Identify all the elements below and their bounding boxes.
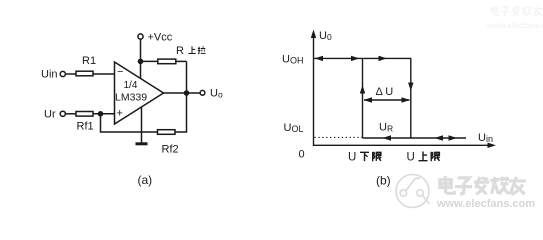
svg-text:LM339: LM339	[115, 92, 147, 104]
svg-text:1/4: 1/4	[124, 80, 138, 91]
svg-text:Rf1: Rf1	[77, 121, 94, 133]
svg-text:−: −	[117, 66, 123, 78]
arrowhead UOH line mid-right1	[351, 56, 360, 61]
svg-text:0: 0	[299, 149, 305, 161]
resistor Rf2	[158, 130, 176, 135]
hysteresis right vertical	[410, 58, 412, 138]
label CJK xian (limit, lower)	[373, 152, 382, 161]
wire op-amp V- pin to ground	[141, 107, 143, 143]
line UOH level	[314, 57, 412, 59]
arrowhead UOL branch left	[383, 135, 392, 140]
svg-text:Rf2: Rf2	[162, 144, 179, 156]
wire	[141, 60, 158, 62]
svg-text:UR: UR	[379, 122, 393, 134]
svg-text:+: +	[117, 108, 123, 120]
terminal Ur	[60, 111, 65, 116]
wire	[176, 60, 187, 62]
wire	[66, 113, 77, 115]
svg-text:Uin: Uin	[478, 132, 493, 144]
svg-text:www.elecfans.com: www.elecfans.com	[436, 198, 535, 210]
svg-text:(a): (a)	[138, 173, 153, 187]
node junction B	[138, 59, 144, 65]
axis Uo vertical	[313, 33, 315, 146]
ground	[136, 142, 148, 145]
terminal Uo	[200, 90, 205, 95]
line UOL branch	[363, 137, 467, 139]
svg-text:+Vcc: +Vcc	[148, 32, 173, 44]
label CJK shang (pull-up)	[188, 46, 195, 53]
dotted UOL level	[315, 136, 363, 138]
wire	[93, 113, 115, 115]
label CJK shang (upper)	[419, 152, 428, 161]
svg-text:(b): (b)	[376, 174, 391, 188]
label CJK xian (limit, upper)	[431, 152, 440, 161]
axis Uin horizontal	[314, 144, 493, 146]
arrowhead deltaU right	[402, 97, 411, 102]
resistor R pull-up	[158, 59, 176, 64]
arrowhead UOL branch right pair right	[449, 135, 458, 140]
svg-text:Ur: Ur	[44, 109, 56, 121]
watermark logo circle	[396, 175, 430, 208]
svg-text:Δ U: Δ U	[376, 86, 394, 98]
delta-U measure line	[364, 99, 410, 101]
svg-text:Uo: Uo	[210, 88, 223, 100]
node output junction	[184, 90, 190, 96]
wire	[93, 73, 115, 75]
arrowhead axis Uin right	[488, 143, 497, 148]
op-amp U1	[115, 62, 164, 124]
arrowhead UOL branch right pair left	[435, 135, 444, 140]
wire	[66, 73, 77, 75]
resistor Rf1	[76, 112, 93, 117]
svg-text:U: U	[407, 152, 415, 164]
arrowhead axis Uo top	[311, 30, 316, 39]
wire output	[164, 92, 201, 94]
svg-text:Uin: Uin	[41, 69, 58, 81]
watermark top-right faint	[486, 6, 543, 30]
arrowhead left vertical up	[360, 85, 365, 94]
arrowhead right vertical down	[408, 83, 413, 92]
wire	[101, 114, 158, 132]
svg-text:R1: R1	[82, 55, 96, 67]
hysteresis left vertical	[362, 58, 364, 138]
resistor R1	[76, 71, 93, 76]
svg-text:R: R	[176, 45, 184, 57]
terminal Uin	[60, 71, 65, 76]
wire	[175, 61, 187, 132]
wire	[140, 39, 142, 78]
svg-text:U: U	[348, 152, 356, 164]
watermark text dianzifashaoyou	[440, 176, 526, 195]
arrowhead deltaU left	[364, 97, 373, 102]
svg-text:www.elecfans.com: www.elecfans.com	[486, 21, 543, 30]
label CJK la (pull-up)	[198, 46, 206, 53]
svg-text:UOH: UOH	[282, 54, 303, 66]
arrowhead UOH line mid-right2	[379, 56, 388, 61]
svg-text:U0: U0	[319, 30, 332, 42]
label CJK xia (lower)	[360, 152, 369, 161]
svg-text:UOL: UOL	[284, 122, 304, 134]
node junction A	[98, 111, 104, 117]
terminal +Vcc	[138, 34, 143, 39]
arrowhead UOH line left	[315, 56, 324, 61]
